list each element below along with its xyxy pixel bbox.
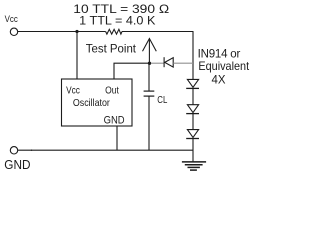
test point arrow head bbox=[143, 39, 157, 52]
wire node B to diode D1 (grey) bbox=[151, 62, 164, 64]
wire junction A to resistor bbox=[77, 31, 106, 33]
capacitor CL bottom plate bbox=[144, 95, 155, 97]
svg-text:GND: GND bbox=[4, 158, 30, 172]
diode D4 cathode bar bbox=[186, 138, 199, 140]
wire resistor to top-right corner bbox=[122, 31, 194, 33]
oscillator GND pin wire bbox=[116, 126, 118, 150]
svg-text:Test Point: Test Point bbox=[86, 42, 137, 56]
svg-text:Out: Out bbox=[105, 84, 119, 96]
svg-text:Vcc: Vcc bbox=[66, 84, 80, 96]
wire junction A down to oscillator Vcc pin bbox=[76, 32, 78, 80]
diode D3 triangle bbox=[187, 105, 198, 113]
diode D2 triangle bbox=[187, 79, 198, 87]
wire diode D1 to right rail (grey) bbox=[173, 62, 193, 64]
Vcc terminal bbox=[10, 28, 17, 35]
oscillator U1 box bbox=[62, 79, 133, 126]
svg-text:Equivalent: Equivalent bbox=[198, 59, 249, 73]
svg-text:Vcc: Vcc bbox=[5, 14, 18, 25]
capacitor CL top lead bbox=[148, 63, 150, 91]
diode D2 cathode bar bbox=[186, 87, 199, 89]
GND terminal bbox=[10, 147, 17, 154]
test point arrow stem bbox=[148, 39, 150, 63]
wire Vcc terminal to junction A bbox=[18, 31, 77, 33]
capacitor CL top plate bbox=[144, 90, 155, 92]
node A junction dot bbox=[75, 30, 78, 33]
diode D1 cathode bar bbox=[163, 57, 165, 67]
svg-text:4X: 4X bbox=[212, 73, 226, 87]
svg-text:CL: CL bbox=[157, 94, 167, 106]
node B junction dot bbox=[148, 62, 151, 65]
small junction speck on bottom rail bbox=[31, 149, 33, 151]
diode D3 cathode bar bbox=[186, 113, 199, 115]
wire rail D3 to D4 bbox=[192, 114, 194, 130]
capacitor CL bottom lead bbox=[148, 96, 150, 150]
wire Out pin up and right to node B bbox=[114, 63, 148, 79]
bottom rail wire bbox=[18, 149, 193, 151]
svg-text:1 TTL = 4.0 K: 1 TTL = 4.0 K bbox=[79, 13, 155, 27]
resistor R1 bbox=[106, 29, 122, 34]
wire rail D2 to D3 bbox=[192, 88, 194, 104]
wire right rail top segment bbox=[192, 32, 194, 80]
wire rail D4 to ground bbox=[192, 139, 194, 162]
ground symbol bbox=[182, 162, 206, 170]
svg-text:GND: GND bbox=[104, 114, 125, 126]
diode D4 triangle bbox=[187, 130, 198, 138]
diode D1 triangle bbox=[165, 58, 174, 67]
svg-text:Oscillator: Oscillator bbox=[73, 97, 110, 109]
